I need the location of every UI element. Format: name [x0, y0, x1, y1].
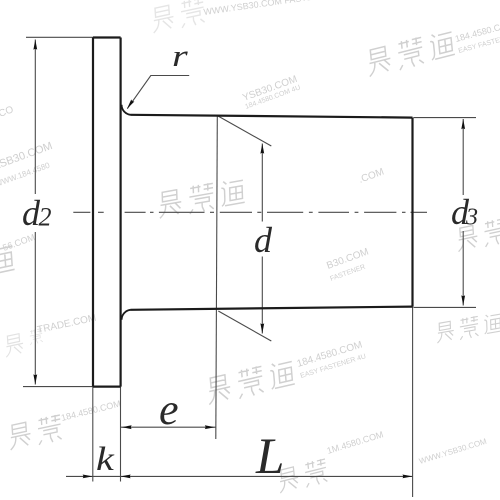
svg-text:2: 2	[39, 203, 52, 232]
svg-text:k: k	[96, 441, 115, 478]
svg-text:3: 3	[465, 205, 478, 231]
svg-text:L: L	[255, 429, 284, 485]
svg-text:d: d	[254, 220, 273, 260]
svg-text:r: r	[172, 38, 189, 72]
svg-text:e: e	[159, 385, 179, 434]
